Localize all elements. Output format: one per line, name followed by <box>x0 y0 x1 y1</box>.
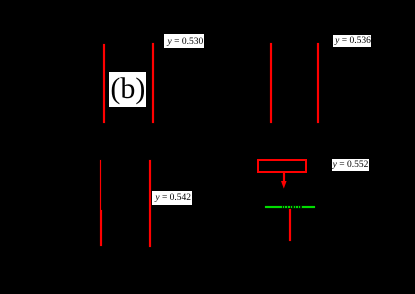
label y = 0.536 <box>333 35 371 47</box>
panel y=0.552 : arrow head (downward triangle) <box>281 181 287 189</box>
panel y=0.542 : left red vortex line (thicker lower part) <box>100 210 102 246</box>
panel (b) y=0.530 : left red vortex line <box>103 44 105 123</box>
panel label (b) <box>109 72 146 107</box>
panel y=0.552 : dark speckles on green interface line <box>282 206 283 208</box>
label y = 0.530 <box>164 34 204 48</box>
panel (b) y=0.530 : right red vortex line <box>152 43 154 123</box>
panel y=0.552 : red vortex line below interface <box>289 209 291 241</box>
panel y=0.536 : left red vortex line <box>270 43 272 123</box>
label y = 0.542 <box>152 191 192 205</box>
panel y=0.552 : green interface line <box>265 206 315 209</box>
panel y=0.542 : left red vortex line (thin upper part) <box>100 160 101 210</box>
panel y=0.552 : red rectangle outline <box>257 159 307 173</box>
panel y=0.542 : right red vortex line <box>149 160 151 247</box>
panel y=0.552 : arrow shaft from rectangle <box>283 173 285 182</box>
panel y=0.536 : right red vortex line <box>317 43 319 123</box>
label y = 0.552 <box>332 159 369 171</box>
